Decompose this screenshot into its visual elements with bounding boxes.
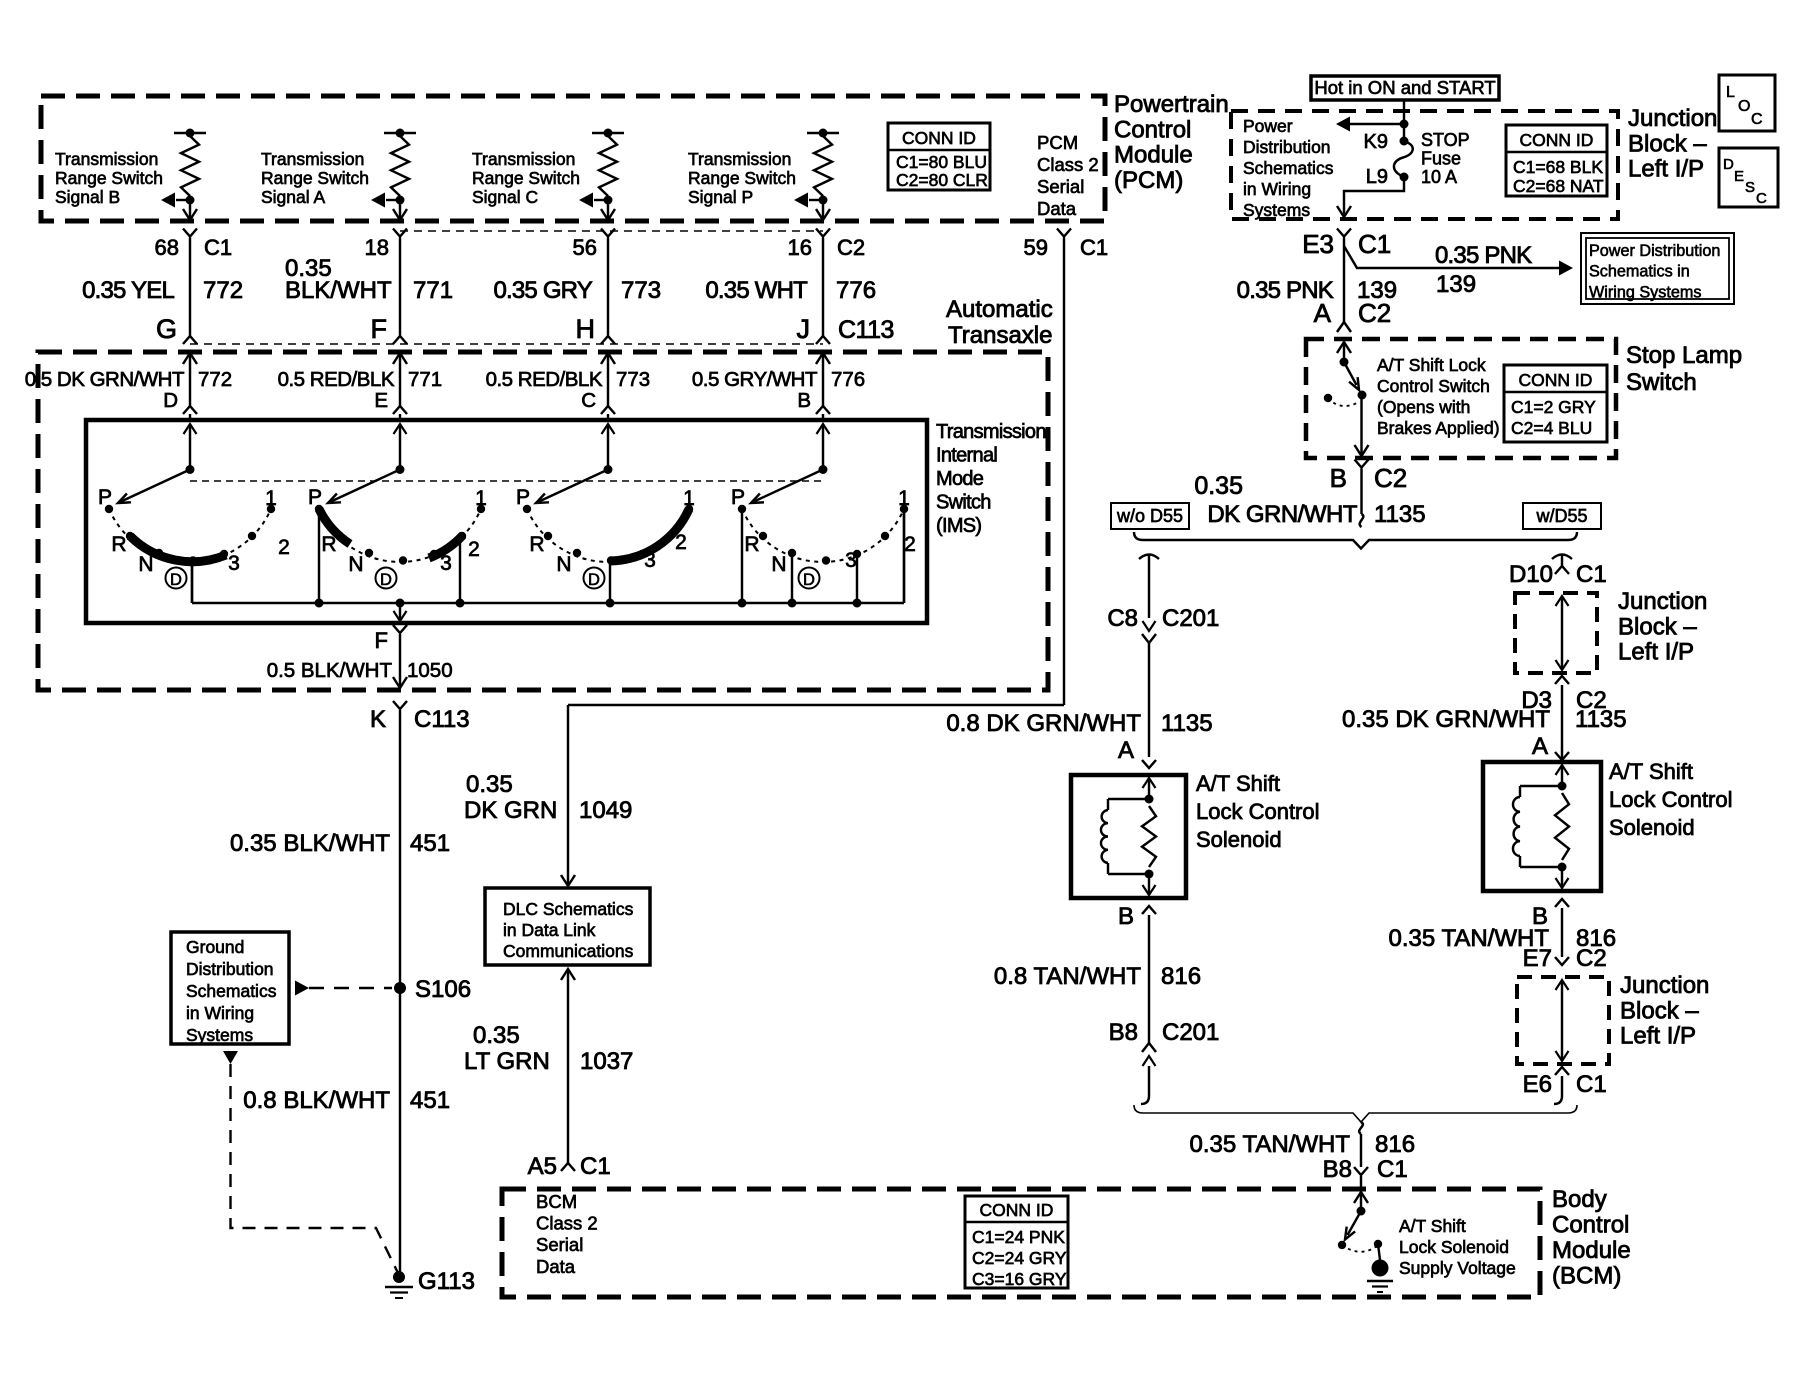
wire: right branch stub	[1561, 555, 1563, 566]
svg-text:(BCM): (BCM)	[1552, 1263, 1621, 1290]
wire: 0.35 TAN/WHT 816 (right)	[1561, 908, 1563, 957]
ground: BCM internal ground ball	[1367, 1260, 1393, 1293]
svg-text:R: R	[111, 533, 126, 556]
circuit number 139 (branch)	[1436, 271, 1476, 298]
arrow: wire 773 up to transaxle edge	[601, 353, 615, 364]
svg-text:C1=2 GRY: C1=2 GRY	[1511, 397, 1596, 417]
connector symbol: D10/C1	[1555, 566, 1569, 574]
svg-text:Transmission: Transmission	[936, 421, 1046, 443]
arrow: wire 771 up to transaxle edge	[393, 353, 407, 364]
node: junction dot below resistor 3	[604, 196, 613, 205]
component: A/T Shift Lock Control Solenoid (w/o D55)	[1071, 771, 1320, 898]
label: A/T Shift Lock Control Switch (Opens with Brakes Applied)	[1377, 355, 1500, 438]
wire: left branch to bottom brace	[1141, 1066, 1149, 1104]
switch throw dashed arc	[1342, 1245, 1377, 1252]
label: Body Control Module (BCM)	[1552, 1186, 1631, 1290]
wire: squiggle joint at split	[1360, 514, 1364, 527]
wire: right branch to bottom brace	[1554, 1076, 1562, 1104]
label: Powertrain Control Module (PCM)	[1114, 91, 1229, 194]
wire: IMS pin B to wiper	[822, 424, 824, 469]
label: A/T Shift Lock Solenoid Supply Voltage	[1399, 1216, 1516, 1278]
circuit number 772	[203, 277, 243, 304]
pin letter F	[371, 314, 388, 344]
wire: squiggle joint below brace	[1359, 1122, 1363, 1134]
module box: Junction Block - Left I/P outline	[1231, 111, 1618, 219]
svg-text:816: 816	[1375, 1131, 1415, 1158]
svg-text:776: 776	[836, 277, 876, 304]
svg-text:1049: 1049	[579, 797, 632, 824]
svg-text:G113: G113	[418, 1268, 475, 1295]
svg-text:2: 2	[468, 538, 480, 561]
wire label 0.5 RED/BLK	[278, 368, 395, 391]
wire: left branch hook	[1139, 555, 1159, 560]
svg-text:Systems: Systems	[1243, 200, 1310, 220]
wire label 0.35 GRY	[493, 277, 592, 304]
svg-text:Transmission: Transmission	[55, 149, 158, 169]
wire label 0.35 PNK	[1237, 277, 1334, 304]
svg-text:Switch: Switch	[936, 492, 991, 514]
arrow: wire 772 up to transaxle edge	[183, 353, 197, 364]
circuit number 451	[410, 830, 450, 857]
svg-text:Data: Data	[536, 1256, 576, 1277]
svg-text:E3: E3	[1302, 229, 1334, 259]
svg-text:773: 773	[616, 368, 650, 391]
svg-text:Signal B: Signal B	[55, 187, 120, 207]
svg-text:Power: Power	[1243, 116, 1293, 136]
wire label 0.5 GRY/WHT	[692, 368, 818, 391]
wire: F tap from bus	[399, 603, 401, 619]
switch: IMS wafer 1 (signal B)	[98, 465, 290, 603]
svg-text:B: B	[1330, 463, 1347, 493]
svg-text:0.8 BLK/WHT: 0.8 BLK/WHT	[243, 1087, 390, 1114]
svg-text:Automatic: Automatic	[946, 296, 1053, 323]
connector symbol: C113 pin F	[393, 336, 407, 344]
switch: A/T shift lock solenoid supply switch lever	[1345, 1211, 1361, 1240]
svg-text:Powertrain: Powertrain	[1114, 91, 1229, 118]
label: PCM Class 2 Serial Data	[1037, 132, 1099, 219]
connector symbol: solenoid 1 pin A	[1142, 760, 1156, 768]
table: CONN ID box (junction block)	[1506, 125, 1607, 196]
svg-text:Class 2: Class 2	[536, 1213, 598, 1234]
node: junction dot top of resistor 4	[819, 129, 828, 138]
svg-text:D10: D10	[1509, 561, 1553, 588]
svg-text:0.8 DK GRN/WHT: 0.8 DK GRN/WHT	[946, 710, 1141, 737]
wire label 0.35 DK GRN/WHT (right)	[1342, 706, 1550, 733]
connector name C2 (pin A)	[1358, 298, 1391, 328]
svg-text:Range Switch: Range Switch	[261, 168, 369, 188]
svg-text:DLC Schematics: DLC Schematics	[503, 899, 634, 919]
circuit number 1135 (right)	[1575, 706, 1627, 733]
arrow: up to IMS box edge C	[602, 424, 615, 434]
svg-text:LT GRN: LT GRN	[464, 1048, 550, 1075]
wire label 0.35 BLK/WHT	[230, 830, 390, 857]
pin A (stop lamp feed)	[1314, 298, 1332, 328]
reference box: Power Distribution Schematics in Wiring Systems	[1581, 233, 1734, 304]
label: Transmission Range Switch Signal C	[472, 149, 580, 207]
pin number 68	[155, 235, 179, 260]
svg-text:0.5 DK GRN/WHT: 0.5 DK GRN/WHT	[25, 368, 185, 391]
svg-text:B: B	[797, 389, 811, 412]
svg-text:Junction: Junction	[1618, 588, 1707, 615]
svg-text:E6: E6	[1523, 1071, 1552, 1098]
connector symbol: IMS pin B	[816, 406, 830, 414]
switch: IMS wafer 4 (signal P)	[731, 465, 916, 603]
svg-text:0.35: 0.35	[466, 771, 513, 798]
pin number 18	[365, 235, 389, 260]
svg-text:Hot in ON and START: Hot in ON and START	[1314, 77, 1495, 98]
pin number 59	[1024, 235, 1048, 260]
node: stop lamp lever contact dot	[1358, 391, 1367, 400]
connector symbol: IMS pin F	[393, 625, 407, 633]
module box: Powertrain Control Module (PCM) outline	[41, 96, 1105, 221]
svg-text:C2: C2	[1358, 298, 1391, 328]
pin E7	[1523, 945, 1552, 972]
svg-text:Junction: Junction	[1628, 105, 1717, 132]
wire: to BCM internal ground	[1378, 1244, 1380, 1260]
option label box: w/D55	[1523, 503, 1601, 529]
pin letter C	[581, 389, 596, 412]
svg-text:0.5 BLK/WHT: 0.5 BLK/WHT	[267, 659, 393, 682]
svg-text:Lock Control: Lock Control	[1196, 799, 1320, 824]
pin E6	[1523, 1071, 1552, 1098]
svg-text:Signal C: Signal C	[472, 187, 538, 207]
wire: resistor 2 down to PCM edge	[399, 200, 401, 219]
circuit number 1050	[407, 659, 453, 682]
wire: hot feed into junction block	[1403, 100, 1405, 141]
svg-text:Solenoid: Solenoid	[1609, 815, 1695, 840]
circuit number 776	[831, 368, 865, 391]
svg-text:(IMS): (IMS)	[936, 515, 981, 537]
svg-text:C2=24 GRY: C2=24 GRY	[972, 1248, 1067, 1268]
svg-text:Schematics: Schematics	[1243, 158, 1334, 178]
arrow: signal out to left 2	[371, 193, 385, 208]
connector name C2 (stop lamp B)	[1374, 463, 1407, 493]
svg-text:L9: L9	[1366, 166, 1388, 188]
wire: IMS wiper common dashed link	[190, 480, 823, 482]
switch: IMS wafer 3 (signal C)	[516, 465, 695, 603]
svg-text:Range Switch: Range Switch	[472, 168, 580, 188]
wire: resistor 3 down to PCM edge	[607, 200, 609, 219]
connector symbol: IMS pin D	[183, 406, 197, 414]
svg-text:1135: 1135	[1575, 706, 1627, 733]
connector name C113 (pin K)	[414, 706, 470, 733]
wire: 0.5 RED/BLK 773	[607, 353, 609, 406]
wire: PCM class 2 serial data	[568, 238, 1064, 885]
label: Transmission Range Switch Signal P	[688, 149, 796, 207]
svg-text:K: K	[370, 706, 386, 733]
svg-text:S: S	[1745, 179, 1755, 196]
connector symbol: pin A stop lamp switch	[1337, 322, 1351, 332]
circuit number 771	[408, 368, 442, 391]
node: junction dot below resistor 4	[819, 196, 828, 205]
wire: into IMS box pin E	[399, 414, 401, 420]
arrow: into PCM edge 3	[601, 209, 615, 220]
svg-text:CONN ID: CONN ID	[980, 1200, 1054, 1220]
wire label 0.35 LT GRN	[464, 1022, 550, 1075]
svg-text:P: P	[308, 486, 322, 509]
svg-text:D: D	[380, 571, 392, 589]
svg-text:Communications: Communications	[503, 941, 634, 961]
connector symbol: C113 pin J	[816, 336, 830, 344]
svg-text:Lock Solenoid: Lock Solenoid	[1399, 1237, 1509, 1257]
svg-text:0.35 TAN/WHT: 0.35 TAN/WHT	[1190, 1131, 1351, 1158]
svg-text:C2=68 NAT: C2=68 NAT	[1513, 176, 1604, 196]
circuit number 1135 (left)	[1161, 710, 1213, 737]
switch throw dashed arc (stop lamp)	[1324, 394, 1357, 406]
label: Transmission Range Switch Signal A	[261, 149, 369, 207]
wire: 0.35 LT GRN 1037	[567, 969, 569, 1163]
connector symbol: IMS pin E	[393, 406, 407, 414]
svg-text:E7: E7	[1523, 945, 1552, 972]
wire: IMS common bus	[192, 509, 904, 603]
wire: IMS pin C to wiper	[607, 424, 609, 469]
svg-text:0.35 DK GRN/WHT: 0.35 DK GRN/WHT	[1342, 706, 1550, 733]
svg-text:N: N	[771, 553, 786, 576]
svg-text:CONN ID: CONN ID	[1520, 130, 1594, 150]
label: Automatic Transaxle	[946, 296, 1053, 349]
circuit number 772	[198, 368, 232, 391]
svg-text:0.35 GRY: 0.35 GRY	[493, 277, 592, 304]
svg-text:0.5 RED/BLK: 0.5 RED/BLK	[278, 368, 395, 391]
svg-text:S106: S106	[415, 976, 471, 1003]
resistor R3 (range switch pull-up)	[599, 136, 617, 196]
svg-text:BLK/WHT: BLK/WHT	[285, 277, 392, 304]
pin B8 (BCM)	[1323, 1156, 1352, 1183]
wire label 0.35 WHT	[705, 277, 808, 304]
svg-text:C: C	[1756, 190, 1767, 207]
table: CONN ID box (BCM)	[965, 1196, 1068, 1289]
svg-text:451: 451	[410, 830, 450, 857]
svg-text:in Wiring: in Wiring	[1243, 179, 1311, 199]
arrow: into stop lamp switch top	[1337, 342, 1351, 353]
connector name C1 (pin 59)	[1080, 235, 1108, 260]
svg-text:C2=80 CLR: C2=80 CLR	[896, 170, 988, 190]
wire: through junction block (upper)	[1556, 596, 1569, 670]
circuit number 773	[616, 368, 650, 391]
wire label 0.35 DK GRN	[464, 771, 557, 824]
svg-text:C1: C1	[204, 235, 232, 260]
connector symbol: BCM pin B8	[1354, 1167, 1368, 1175]
svg-text:Fuse: Fuse	[1421, 149, 1461, 169]
arrow: into junction block bottom edge at E3	[1337, 206, 1351, 217]
circuit number 776	[836, 277, 876, 304]
svg-text:Junction: Junction	[1620, 972, 1709, 999]
circuit number 816 (right)	[1576, 925, 1616, 952]
node: junction dot top of resistor 1	[186, 129, 195, 138]
wire: dashed link from ground box to G113	[231, 1064, 399, 1273]
svg-text:DK GRN: DK GRN	[464, 797, 557, 824]
connector C113 fine outline top	[400, 230, 823, 232]
connector symbol: B8/C201 pass-through	[1142, 1043, 1156, 1066]
pin B (stop lamp)	[1330, 463, 1347, 493]
pin letter F	[375, 628, 388, 653]
svg-text:R: R	[744, 533, 759, 556]
arrow: power branch to left	[1336, 117, 1350, 132]
svg-text:0.35 WHT: 0.35 WHT	[705, 277, 808, 304]
svg-text:Serial: Serial	[1037, 176, 1084, 197]
svg-text:816: 816	[1161, 963, 1201, 990]
svg-text:0.5 GRY/WHT: 0.5 GRY/WHT	[692, 368, 818, 391]
arrow: F tap into IMS box bottom edge	[394, 611, 407, 621]
connector symbol: IMS pin C	[601, 406, 615, 414]
connector name C1	[204, 235, 232, 260]
svg-text:Range Switch: Range Switch	[55, 168, 163, 188]
svg-text:N: N	[556, 553, 571, 576]
svg-text:Schematics in: Schematics in	[1589, 263, 1690, 281]
connector name C1 (BCM B8)	[1377, 1156, 1408, 1183]
pin A (solenoid 1)	[1118, 737, 1134, 764]
svg-text:N: N	[348, 553, 363, 576]
svg-text:Left I/P: Left I/P	[1628, 156, 1704, 183]
wire: 0.35 PNK 139	[1343, 238, 1345, 323]
wire: 0.35 WHT circuit 776	[822, 238, 824, 337]
bus brace: w/o D55 vs w/D55 split	[1134, 532, 1577, 549]
connector symbol: C113 pin G	[183, 336, 197, 344]
wire: 0.5 BLK/WHT 1050	[399, 634, 401, 676]
label: Junction Block - Left I/P (upper)	[1618, 588, 1707, 666]
table: CONN ID box (stop lamp switch)	[1504, 365, 1607, 442]
node: bus junction dot	[606, 599, 615, 608]
svg-text:in Data Link: in Data Link	[503, 920, 596, 940]
connector symbol: PCM pin 18	[393, 229, 407, 237]
svg-text:Module: Module	[1114, 142, 1193, 169]
svg-text:C201: C201	[1162, 1019, 1219, 1046]
node: bus junction dot	[738, 599, 747, 608]
resistor R4 (range switch pull-up)	[814, 136, 832, 196]
svg-text:Solenoid: Solenoid	[1196, 827, 1282, 852]
wire: 0.35 BLK/WHT 451 ground wire	[399, 710, 401, 1277]
circuit number 451	[410, 1087, 450, 1114]
svg-text:A: A	[1118, 737, 1134, 764]
wire: dashed splice link to ground distribution	[309, 987, 392, 989]
svg-text:Internal: Internal	[936, 445, 997, 467]
node: hot feed junction dot	[1400, 120, 1409, 129]
svg-text:2: 2	[278, 536, 290, 559]
svg-text:Power Distribution: Power Distribution	[1589, 242, 1720, 260]
wire: stub above K	[399, 676, 401, 688]
node: BCM switch contact left	[1338, 1241, 1346, 1249]
pin A (solenoid 2)	[1532, 733, 1548, 760]
svg-text:B: B	[1118, 903, 1134, 930]
svg-text:Brakes Applied): Brakes Applied)	[1377, 418, 1500, 438]
wire: through junction block (lower)	[1556, 980, 1569, 1061]
svg-text:C8: C8	[1107, 605, 1138, 632]
svg-text:O: O	[1738, 98, 1750, 115]
wire: pull-up bar for resistor 2	[384, 132, 416, 134]
svg-text:CONN ID: CONN ID	[902, 128, 976, 148]
wire label 0.35 TAN/WHT (BCM)	[1190, 1131, 1351, 1158]
pin number 56	[573, 235, 597, 260]
svg-text:w/o D55: w/o D55	[1116, 506, 1183, 526]
icon box LOC	[1719, 75, 1775, 131]
svg-text:Signal P: Signal P	[688, 187, 753, 207]
connector name C113	[838, 316, 894, 344]
wire: resistor 1 down to PCM edge	[189, 200, 191, 219]
svg-text:H: H	[576, 314, 596, 344]
svg-text:A: A	[1314, 298, 1332, 328]
svg-text:D: D	[588, 571, 600, 589]
connector symbol: solenoid 2 pin B	[1555, 899, 1569, 907]
svg-text:C2: C2	[1576, 945, 1607, 972]
node: BCM switch contact right	[1374, 1240, 1382, 1248]
wire: left branch down to C8	[1148, 555, 1150, 618]
connector symbol: solenoid 2 pin A	[1555, 752, 1569, 760]
wire label 0.35 DK GRN/WHT	[1194, 472, 1358, 528]
svg-text:Data: Data	[1037, 198, 1077, 219]
svg-text:771: 771	[408, 368, 442, 391]
svg-text:Block –: Block –	[1620, 997, 1699, 1024]
arrow: supply into BCM top edge	[1354, 1192, 1368, 1203]
arrow: up to IMS box edge E	[394, 424, 407, 434]
fuse: STOP Fuse 10A	[1394, 137, 1413, 182]
label L9	[1366, 166, 1388, 188]
svg-text:Distribution: Distribution	[1243, 137, 1331, 157]
wire label 0.5 DK GRN/WHT	[25, 368, 185, 391]
svg-text:1: 1	[683, 487, 695, 510]
svg-text:R: R	[529, 533, 544, 556]
circuit number 139	[1357, 277, 1397, 304]
wire: 0.35 GRY circuit 773	[607, 238, 609, 337]
node: junction dot below resistor 2	[396, 196, 405, 205]
svg-text:Block –: Block –	[1628, 130, 1707, 157]
arrow: signal out to left 4	[794, 193, 808, 208]
svg-text:Ground: Ground	[186, 937, 244, 957]
pin E3	[1302, 229, 1334, 259]
label G113	[418, 1268, 475, 1295]
circuit number 1049	[579, 797, 632, 824]
svg-text:C2: C2	[1374, 463, 1407, 493]
connector name C201 (C8)	[1162, 605, 1219, 632]
svg-text:A/T Shift Lock: A/T Shift Lock	[1377, 355, 1486, 375]
svg-text:A/T Shift: A/T Shift	[1196, 771, 1280, 796]
node: junction dot top of resistor 2	[396, 129, 405, 138]
pin B (solenoid 2)	[1532, 903, 1548, 930]
svg-text:Mode: Mode	[936, 468, 984, 490]
pin C8	[1107, 605, 1138, 632]
wire label 0.35 TAN/WHT (right)	[1389, 925, 1550, 952]
connector name C1 (D10)	[1576, 561, 1607, 588]
svg-text:K9: K9	[1364, 131, 1388, 153]
svg-text:1050: 1050	[407, 659, 453, 682]
svg-text:Control: Control	[1552, 1212, 1629, 1239]
svg-text:18: 18	[365, 235, 389, 260]
svg-text:C1=80 BLU: C1=80 BLU	[896, 152, 987, 172]
wire: IMS pin E to wiper	[399, 424, 401, 469]
pin D3	[1521, 687, 1552, 714]
svg-text:451: 451	[410, 1087, 450, 1114]
svg-text:Transmission: Transmission	[472, 149, 575, 169]
svg-text:CONN ID: CONN ID	[1519, 370, 1593, 390]
svg-text:in Wiring: in Wiring	[186, 1003, 254, 1023]
svg-text:56: 56	[573, 235, 597, 260]
circuit number 816 (left)	[1161, 963, 1201, 990]
svg-text:Transaxle: Transaxle	[948, 322, 1052, 349]
svg-text:1135: 1135	[1161, 710, 1213, 737]
wire label 0.35 BLK/WHT	[285, 255, 392, 304]
svg-text:w/D55: w/D55	[1535, 506, 1587, 526]
connector C113 fine outline bottom	[190, 343, 823, 345]
svg-text:C113: C113	[838, 316, 894, 344]
arrow: out of stop lamp switch bottom	[1355, 445, 1369, 456]
pin B8	[1109, 1019, 1138, 1046]
wire: 0.8 DK GRN/WHT 1135	[1148, 643, 1150, 757]
svg-text:Transmission: Transmission	[688, 149, 791, 169]
svg-text:C: C	[1751, 111, 1763, 128]
svg-text:DK GRN/WHT: DK GRN/WHT	[1207, 501, 1357, 528]
arrow: signal out to left 1	[161, 193, 175, 208]
svg-text:A: A	[1532, 733, 1548, 760]
switch: stop lamp contact lever	[1344, 362, 1359, 390]
